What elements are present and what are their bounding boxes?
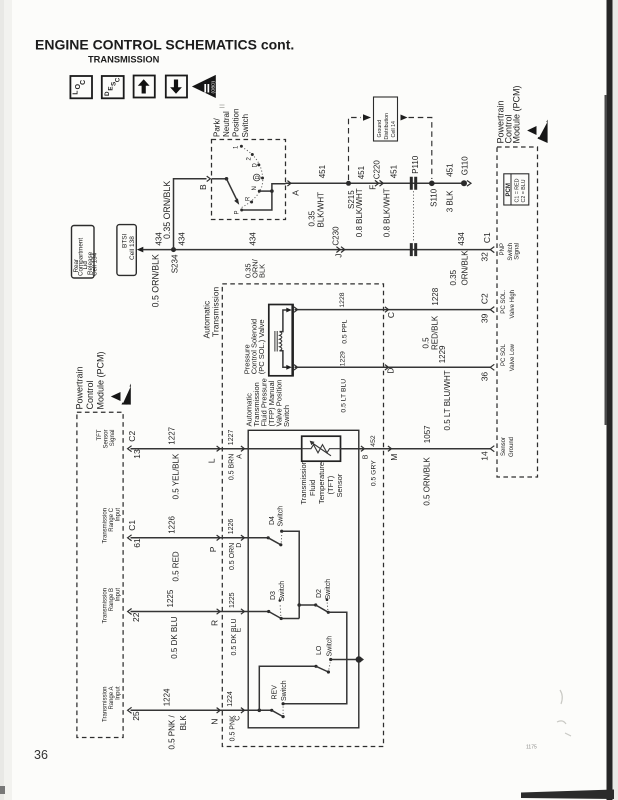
svg-text:Cell 14: Cell 14	[391, 121, 397, 138]
svg-text:G110: G110	[461, 156, 470, 176]
svg-text:0.5 ORN/BLK: 0.5 ORN/BLK	[423, 457, 432, 506]
svg-text:Range A: Range A	[109, 687, 115, 710]
svg-text:1175: 1175	[526, 745, 537, 751]
svg-text:452: 452	[370, 435, 377, 447]
svg-text:P: P	[208, 546, 218, 552]
icon box DESC	[102, 76, 124, 98]
svg-text:BLK: BLK	[179, 715, 188, 731]
svg-text:C2: C2	[480, 293, 490, 304]
D4 switch	[267, 536, 270, 539]
svg-text:Transmission: Transmission	[211, 287, 221, 337]
wire 0.5 LT BLU 1229 from PC SOL to terminal D	[295, 366, 384, 368]
splice S110	[429, 181, 435, 187]
inline connector P110 on wire 451	[411, 177, 415, 190]
svg-text:0.5 LT BLU: 0.5 LT BLU	[341, 379, 348, 413]
svg-text:C: C	[386, 312, 396, 318]
svg-text:39: 39	[480, 313, 490, 323]
svg-text:S110: S110	[430, 188, 439, 207]
PNP contact N	[258, 190, 261, 193]
left PCM warning triangles icon	[111, 392, 121, 401]
svg-text:Cell 138: Cell 138	[129, 236, 136, 260]
svg-text:E: E	[236, 628, 243, 633]
svg-text:REV: REV	[272, 685, 279, 700]
svg-text:0.5 RED: 0.5 RED	[172, 551, 181, 581]
svg-text:Control: Control	[85, 380, 95, 409]
inline connector C220 terminal F	[375, 180, 379, 186]
svg-text:C: C	[114, 77, 121, 82]
svg-text:N: N	[252, 186, 258, 190]
svg-text:61: 61	[132, 538, 142, 548]
PNP switch pivot	[225, 177, 229, 181]
svg-text:0.5 ORN: 0.5 ORN	[229, 543, 236, 570]
svg-text:0.5 ORN/BLK: 0.5 ORN/BLK	[151, 254, 161, 307]
wire 0.5 PPL 1228 from PC SOL to terminal C	[295, 309, 384, 311]
svg-text:ENGINE CONTROL SCHEMATICS cont: ENGINE CONTROL SCHEMATICS cont.	[35, 37, 294, 53]
svg-text:D4: D4	[269, 516, 276, 525]
junction on wire N to LO switch	[258, 709, 262, 713]
svg-text:Ground: Ground	[509, 437, 515, 457]
faint pencil marks	[557, 690, 571, 736]
svg-text:434: 434	[249, 232, 258, 246]
PNP contact R	[250, 201, 253, 204]
svg-text:0.5 DK BLU: 0.5 DK BLU	[231, 619, 238, 656]
svg-text:Switch: Switch	[241, 114, 250, 138]
PNP switch rotor arm pointing at P	[227, 179, 238, 202]
svg-text:Cell 134: Cell 134	[91, 252, 98, 276]
svg-text:1227: 1227	[168, 426, 177, 444]
svg-text:II: II	[204, 84, 210, 96]
svg-text:1228: 1228	[431, 287, 440, 305]
REV switch	[270, 709, 273, 712]
TFP Manual Valve Position Switch box	[248, 430, 359, 728]
svg-text:B: B	[363, 454, 370, 459]
icon box LOC	[70, 76, 92, 98]
svg-text:LO: LO	[316, 645, 323, 655]
wire D 0.5 LT BLU/WHT 1229 to PCM pin 36	[384, 366, 491, 368]
svg-text:(PC SOL.) Valve: (PC SOL.) Valve	[257, 319, 266, 374]
wire from D3 to junction	[281, 618, 299, 620]
icon box up arrow	[134, 76, 155, 98]
svg-text:PC SOL.: PC SOL.	[501, 290, 507, 314]
svg-text:(OBD): (OBD)	[211, 81, 216, 94]
svg-text:Switch: Switch	[327, 636, 334, 657]
wire P 0.5 RED 1226 from PCM pin 61 to D4 switch	[131, 537, 269, 539]
svg-text:1225: 1225	[166, 589, 175, 607]
svg-text:Switch: Switch	[282, 405, 291, 427]
svg-text:1226: 1226	[228, 519, 235, 535]
svg-text:0.5 PNK /: 0.5 PNK /	[168, 715, 177, 750]
svg-text:Fluid: Fluid	[308, 480, 317, 496]
TFT sensor box	[302, 436, 341, 461]
svg-text:451: 451	[318, 164, 327, 178]
svg-text:Input: Input	[116, 686, 122, 700]
svg-text:Signal: Signal	[515, 243, 521, 260]
svg-text:D: D	[386, 368, 396, 374]
svg-text:RED/BLK: RED/BLK	[431, 315, 440, 350]
wire from D4 to D2/D3 junction	[282, 531, 300, 618]
PNP contact D	[257, 163, 260, 166]
svg-text:Ground: Ground	[377, 120, 383, 138]
Park/Neutral Position Switch dashed box	[212, 140, 286, 220]
svg-text:Transmission: Transmission	[103, 588, 109, 623]
svg-text:0.35 ORN/BLK: 0.35 ORN/BLK	[162, 181, 172, 239]
svg-text:Powertrain: Powertrain	[75, 366, 85, 409]
svg-text:1057: 1057	[423, 425, 432, 443]
box Ground Distribution Cell 14	[374, 97, 398, 141]
svg-text:3 BLK: 3 BLK	[446, 190, 455, 212]
svg-text:D: D	[236, 543, 243, 548]
svg-text:C: C	[235, 716, 242, 721]
svg-text:13: 13	[132, 449, 142, 459]
svg-text:TRANSMISSION: TRANSMISSION	[88, 55, 160, 65]
svg-text:PC SOL: PC SOL	[501, 343, 507, 366]
right PCM warning triangles icon	[527, 126, 536, 135]
svg-text:C230: C230	[332, 226, 341, 246]
svg-text:P: P	[235, 210, 241, 214]
svg-text:0.5 DK BLU: 0.5 DK BLU	[170, 616, 179, 658]
svg-text:Transmission: Transmission	[103, 687, 109, 722]
svg-text:L: L	[207, 458, 217, 463]
right Powertrain Control Module PCM dashed box	[497, 147, 538, 477]
svg-text:A: A	[291, 190, 301, 196]
wire M 0.5 ORN/BLK 1057 to PCM pin 14	[359, 448, 491, 450]
svg-text:Transmission: Transmission	[299, 460, 308, 504]
svg-text:M: M	[389, 454, 399, 461]
PC SOL solenoid coil symbol	[275, 331, 277, 352]
svg-text:0.5: 0.5	[422, 337, 431, 349]
svg-text:C220: C220	[373, 160, 382, 180]
svg-text:0.5 PPL: 0.5 PPL	[342, 319, 349, 343]
svg-text:Module (PCM): Module (PCM)	[512, 85, 522, 143]
arrow from BTSI box to wire 434	[137, 247, 144, 253]
PCM pin 25	[128, 707, 132, 713]
svg-text:1229: 1229	[340, 351, 347, 366]
wire branch 0.35 ORN/BLK from S234 up to Park/Neutral switch B	[174, 179, 207, 250]
svg-text:D: D	[253, 163, 259, 168]
svg-text:14: 14	[480, 451, 490, 461]
svg-text:1228: 1228	[339, 292, 346, 307]
dashed line S215 to Ground Distribution box	[349, 118, 362, 181]
svg-text:0.8 BLK/WHT: 0.8 BLK/WHT	[383, 188, 392, 237]
svg-text:P110: P110	[411, 155, 420, 174]
svg-text:Module (PCM): Module (PCM)	[96, 351, 106, 409]
svg-text:Transmission: Transmission	[103, 508, 109, 543]
svg-text:0.8 BLK/WHT: 0.8 BLK/WHT	[355, 188, 364, 237]
dotted link between P110 grommets	[413, 191, 415, 241]
wire R 0.5 DK BLU 1225 from PCM pin 22 to D3 switch	[131, 611, 269, 613]
wire from D2 to REV switch	[283, 612, 347, 703]
D3 switch	[267, 610, 270, 613]
PCM pin 32 terminal C1	[490, 247, 494, 253]
svg-text:C2 = BLU: C2 = BLU	[521, 179, 527, 202]
svg-text:Input: Input	[116, 588, 122, 602]
svg-text:D: D	[104, 91, 111, 96]
Automatic Transmission dashed box	[222, 284, 383, 747]
svg-text:D3: D3	[270, 591, 277, 600]
D2 switch	[299, 604, 316, 606]
svg-text:ORN/BLK: ORN/BLK	[461, 250, 470, 286]
svg-text:BLK: BLK	[258, 264, 267, 278]
svg-text:434: 434	[178, 232, 187, 246]
svg-text:BLK/WHT: BLK/WHT	[317, 192, 326, 228]
box Rear Compartment Lid Release Cell 134	[72, 226, 95, 279]
PNP contact D drive circled	[261, 177, 264, 180]
svg-text:B: B	[198, 184, 208, 190]
svg-text:BTSI: BTSI	[122, 233, 129, 248]
splice S215	[346, 181, 351, 186]
smudge below OBD icon	[220, 105, 225, 108]
svg-text:0.35: 0.35	[449, 269, 458, 285]
svg-text:1229: 1229	[438, 345, 447, 363]
PCM connector legend box C1=RED C2=BLU	[504, 174, 529, 205]
svg-text:1226: 1226	[168, 515, 177, 533]
PC SOL internal wires to terminals	[280, 310, 288, 332]
PNP contact 1	[240, 145, 243, 148]
wire N 0.5 PNK/BLK 1224 from PCM pin 25 to REV switch	[131, 709, 272, 711]
icon OBD II triangle	[192, 75, 216, 98]
wire L 0.5 YEL/BLK 1227 from PCM pin 13 to TFT sensor	[131, 448, 302, 450]
box BTSI Cell 138	[117, 225, 136, 276]
wire from TFT sensor to TFP box edge terminal B	[341, 448, 359, 450]
wire 434 ORN/BLK from BTSI arrow to PCM pin 32	[143, 249, 491, 251]
svg-text:Valve Low: Valve Low	[510, 343, 516, 371]
svg-text:0.35: 0.35	[308, 210, 317, 226]
svg-text:Switch: Switch	[281, 680, 288, 701]
svg-text:D: D	[255, 176, 261, 180]
svg-text:36: 36	[34, 748, 48, 762]
svg-text:Neutral: Neutral	[222, 111, 231, 137]
wire 451 BLK/WHT from PNP terminal A to ground G110	[286, 182, 464, 184]
svg-text:Switch: Switch	[279, 581, 286, 602]
svg-text:0.5 GRY: 0.5 GRY	[371, 460, 378, 486]
LO switch wire to case ground dot	[331, 659, 359, 661]
svg-text:1224: 1224	[163, 688, 172, 706]
scanned page right edge dark band	[607, 0, 613, 800]
svg-text:25: 25	[131, 711, 141, 721]
PNP contact arc dotted	[242, 148, 263, 208]
svg-text:Distribution: Distribution	[384, 113, 390, 140]
PNP switch wire from B to pivot	[212, 178, 227, 180]
svg-text:22: 22	[131, 612, 141, 622]
svg-text:0.5 BRN: 0.5 BRN	[229, 454, 236, 480]
svg-text:C1 = RED: C1 = RED	[514, 178, 520, 202]
svg-text:Range C: Range C	[109, 507, 115, 531]
TFT thermistor symbol	[302, 445, 341, 453]
svg-text:D2: D2	[316, 589, 323, 598]
svg-text:0.5 YEL/BLK: 0.5 YEL/BLK	[172, 453, 181, 499]
svg-text:451: 451	[446, 163, 455, 177]
svg-text:Sensor: Sensor	[335, 473, 344, 497]
svg-text:Park/: Park/	[213, 118, 222, 137]
LO switch	[314, 665, 317, 668]
PCM pin 61 terminal C1	[128, 535, 132, 541]
svg-text:J: J	[335, 254, 344, 258]
svg-text:S234: S234	[171, 254, 180, 273]
PCM pin 36	[490, 364, 494, 370]
svg-text:1224: 1224	[227, 691, 234, 707]
svg-text:(TFT): (TFT)	[326, 475, 335, 494]
svg-text:PNP: PNP	[500, 243, 506, 255]
svg-text:TFT: TFT	[97, 429, 103, 440]
splice S234	[171, 247, 176, 252]
ground G110	[461, 180, 467, 186]
svg-text:Position: Position	[232, 109, 241, 137]
svg-text:451: 451	[357, 165, 366, 179]
svg-text:C1: C1	[127, 520, 137, 531]
PCM pin 13 terminal C2	[128, 446, 132, 452]
svg-text:R: R	[246, 196, 252, 201]
svg-text:434: 434	[457, 232, 466, 246]
Pressure Control Solenoid PC SOL Valve box	[269, 305, 293, 376]
svg-text:Switch: Switch	[325, 579, 332, 600]
svg-text:Input: Input	[116, 508, 122, 522]
svg-text:N: N	[210, 719, 220, 725]
svg-text:Switch: Switch	[278, 506, 285, 527]
PNP contact P	[240, 209, 243, 212]
svg-text:R: R	[210, 620, 220, 626]
svg-text:Valve High: Valve High	[510, 290, 516, 319]
left Powertrain Control Module PCM dashed box	[77, 412, 123, 737]
svg-text:PCM: PCM	[506, 183, 512, 196]
svg-text:L: L	[73, 90, 80, 95]
svg-text:36: 36	[480, 372, 490, 382]
PNP contact 2	[251, 153, 254, 156]
svg-text:451: 451	[390, 164, 399, 178]
svg-text:E: E	[107, 86, 114, 90]
svg-text:Range B: Range B	[109, 588, 115, 611]
dashed line Ground Distribution box to S110	[401, 115, 408, 121]
svg-text:Sensor: Sensor	[104, 430, 110, 449]
svg-text:32: 32	[480, 252, 490, 262]
wire C 0.5 RED/BLK 1228 to PCM pin 39	[384, 309, 491, 311]
svg-text:1227: 1227	[228, 430, 235, 446]
icon box down arrow	[166, 76, 187, 98]
scanned page bottom-right dark band	[521, 790, 614, 800]
svg-text:Sensor: Sensor	[501, 437, 507, 456]
svg-text:C: C	[80, 80, 87, 85]
inline connector P110 on wire 434	[411, 243, 415, 256]
svg-text:1225: 1225	[229, 592, 236, 608]
svg-text:Signal: Signal	[110, 430, 116, 447]
PCM pin 14	[490, 446, 494, 452]
svg-text:Temperature: Temperature	[317, 462, 326, 504]
PCM pin 22	[128, 609, 132, 615]
svg-text:C1: C1	[482, 232, 492, 243]
svg-text:F: F	[369, 185, 378, 190]
PCM pin 39 terminal C2	[490, 307, 494, 313]
svg-text:Switch: Switch	[508, 243, 514, 261]
PNP output wiring P and N to terminal A	[242, 184, 286, 210]
svg-text:C2: C2	[127, 431, 137, 442]
svg-text:A: A	[237, 454, 244, 459]
svg-text:0.5 LT BLU/WHT: 0.5 LT BLU/WHT	[443, 370, 452, 430]
